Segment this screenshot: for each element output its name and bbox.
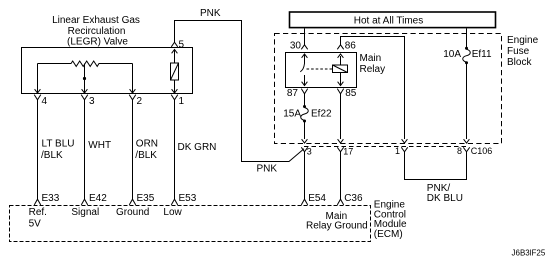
wire left leg to pin 4 with arrow [37,64,39,93]
svg-text:3: 3 [89,96,95,107]
wire pin 87 to fuse Ef22 [304,94,306,106]
node center tap junction [83,77,86,80]
svg-text:30: 30 [290,40,302,51]
wire pin 4 to E33, LT BLU/BLK [37,100,39,199]
label Engine Fuse Block [507,35,539,68]
connector E35 at ECM [129,199,135,205]
C106 pin 17 connector [337,147,343,152]
svg-text:Ref.: Ref. [29,207,47,218]
svg-text:E42: E42 [89,193,107,204]
svg-text:DK GRN: DK GRN [178,142,217,153]
fuse Ef11 10A [465,47,468,50]
LEGR valve box [22,48,193,94]
relay switch contact 30-87 [304,55,306,64]
svg-text:E53: E53 [179,193,197,204]
wire C106 pin 17 to ECM C36 [340,152,342,199]
C106 pin 8 connector [463,147,469,152]
wire center tap to pin 3 with arrow [84,64,86,93]
svg-text:LT BLU: LT BLU [42,138,75,149]
solenoid coil of LEGR valve [171,63,179,80]
fuse Ef22 15A [303,105,306,108]
svg-text:Block: Block [507,57,532,68]
wire coil to pin 86 (up arrow) [340,56,342,65]
svg-text:/BLK: /BLK [41,150,63,161]
svg-text:E33: E33 [42,193,60,204]
Hot at All Times box [290,12,496,28]
svg-text:J6B3lF25: J6B3lF25 [512,248,546,257]
svg-text:5V: 5V [29,218,42,229]
relay coil [333,65,348,73]
svg-text:85: 85 [345,88,357,99]
svg-text:Main: Main [360,53,382,64]
label Main Relay Ground [306,211,368,232]
svg-text:C36: C36 [344,193,363,204]
connector C36 at ECM [337,199,343,205]
wire Hot box to fuse Ef11 [466,29,468,49]
wire pin 1 to E53, DK GRN [174,100,176,199]
wire coil to pin 85 (down arrow) [340,73,342,85]
pin 87 connector [301,89,307,94]
C106 pin 3 connector [301,147,307,152]
svg-text:E54: E54 [308,193,326,204]
svg-text:Linear Exhaust Gas: Linear Exhaust Gas [52,15,140,26]
C106 pin 1 connector [401,147,407,152]
wire pin 3 to E42, WHT [84,100,86,199]
connector E54 at ECM [301,199,307,205]
pin 4 connector [34,95,41,100]
connector E33 at ECM [34,199,40,205]
label PNK/ DK BLU [427,183,463,204]
Engine Fuse Block box (dashed) [275,34,502,144]
svg-text:C106: C106 [471,146,493,156]
connector E42 at ECM [81,199,87,205]
ECM box (dashed) [10,206,371,242]
svg-text:8: 8 [457,146,462,156]
Main Relay box [286,53,357,88]
svg-text:E35: E35 [137,193,155,204]
resistor (LEGR position sensor) [38,61,133,66]
wire solenoid down arrow to pin 1 [174,80,176,93]
svg-text:17: 17 [343,147,353,157]
pin 30 connector [301,45,307,50]
pin 1 connector [171,95,178,100]
wire C106 pin 3 to ECM E54 [304,152,306,199]
wire fuse Ef11 to C106 pin 8 [466,63,468,139]
svg-text:1: 1 [395,146,400,156]
pin 5 connector at valve top [171,42,177,47]
label Engine Control Module (ECM) [374,199,407,240]
svg-text:1: 1 [179,96,185,107]
svg-text:WHT: WHT [88,140,111,151]
pin 85 connector [337,89,343,94]
label Ref. 5V [29,207,47,230]
connector line C106 (dashed) [304,146,467,148]
wire relay pin 86 to C106 pin 1 [341,37,405,140]
svg-text:PNK: PNK [200,8,221,19]
connector E53 at ECM [171,199,177,205]
wire pin 2 to E35, ORN/BLK [132,100,134,199]
svg-text:4: 4 [42,96,48,107]
svg-text:Ef11: Ef11 [472,49,492,60]
wire pin 85 to C106 pin 17 [340,94,342,139]
svg-text:Ground: Ground [116,207,149,218]
svg-text:Hot at All Times: Hot at All Times [354,15,423,26]
svg-text:87: 87 [287,88,299,99]
pin 86 connector [337,45,343,50]
svg-text:PNK: PNK [257,164,278,175]
svg-text:DK BLU: DK BLU [427,193,463,204]
svg-text:86: 86 [345,40,357,51]
svg-text:10A: 10A [443,49,461,60]
svg-text:5: 5 [179,39,185,50]
svg-text:3: 3 [307,147,312,157]
svg-text:Fuse: Fuse [507,46,530,57]
svg-text:(ECM): (ECM) [374,229,403,240]
svg-text:Engine: Engine [507,35,539,46]
relay actuation dashed link [307,68,333,70]
pin 2 connector [129,95,136,100]
wire fuse Ef22 to C106 pin 3 [304,122,306,140]
wire right leg to pin 2 with arrow [132,64,134,93]
wire solenoid up arrow to pin 5 [174,51,176,64]
label ORN /BLK [135,138,158,161]
svg-text:Relay Ground: Relay Ground [306,220,368,231]
pin 3 connector [81,95,88,100]
svg-text:/BLK: /BLK [135,150,157,161]
svg-text:15A: 15A [283,108,301,119]
wire PNK/DK BLU jumper C106 pin 1 to pin 8 [405,152,467,180]
label Main Relay [360,53,386,75]
svg-text:(LEGR) Valve: (LEGR) Valve [67,36,128,47]
svg-text:Signal: Signal [71,207,99,218]
label LT BLU /BLK [41,138,74,161]
wire Hot box to relay pin 30 [304,29,306,46]
label Linear Exhaust Gas Recirculation (LEGR) Valve [52,15,140,47]
svg-text:2: 2 [137,96,143,107]
wire PNK from pin 5 to C106 pin 3 [175,21,305,162]
svg-text:Ef22: Ef22 [311,108,332,119]
svg-text:Low: Low [163,207,182,218]
svg-text:Relay: Relay [360,64,386,75]
svg-text:ORN: ORN [136,138,158,149]
